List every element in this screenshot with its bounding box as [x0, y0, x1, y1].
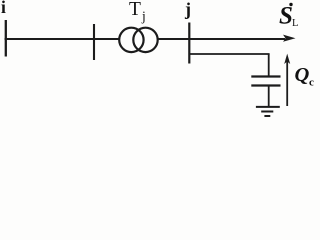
junction tick bar	[93, 24, 95, 60]
svg-text:i: i	[1, 0, 6, 17]
wire: shunt branch horizontal from bus j	[189, 53, 269, 55]
node i bus bar	[5, 20, 7, 57]
ground	[256, 107, 280, 116]
node j bus bar	[188, 23, 190, 64]
svg-text:S: S	[279, 3, 293, 30]
wire: capacitor to ground	[268, 86, 270, 106]
node i label	[1, 0, 6, 17]
wire: transformer to load arrow	[157, 38, 285, 40]
svg-text:L: L	[292, 18, 298, 29]
load label S_L with dot	[279, 3, 298, 30]
wire: shunt branch vertical down to capacitor	[268, 54, 270, 76]
svg-text:T: T	[129, 0, 141, 20]
svg-text:j: j	[141, 8, 146, 23]
transformer T_j	[119, 28, 158, 52]
wire: main line bus i to transformer	[5, 38, 121, 40]
arrow Qc (upward)	[284, 54, 290, 106]
capacitor plates	[251, 77, 280, 86]
arrowhead of load flow S_L	[283, 35, 296, 42]
node j label	[184, 0, 191, 19]
svg-text:c: c	[309, 77, 314, 89]
svg-text:j: j	[184, 0, 191, 19]
svg-text:Q: Q	[295, 64, 310, 86]
transformer label T_j	[129, 0, 146, 23]
reactive power label Q_c	[295, 64, 315, 89]
